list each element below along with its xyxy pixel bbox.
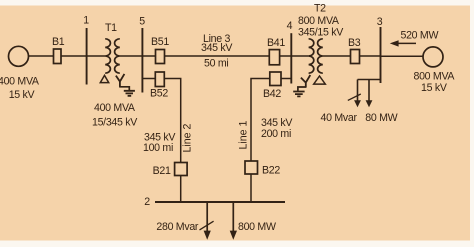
- svg-text:B52: B52: [150, 88, 168, 100]
- wire B41 to bus 4: [280, 55, 292, 57]
- svg-text:345 kV: 345 kV: [201, 42, 233, 54]
- svg-text:800 MVA: 800 MVA: [298, 15, 340, 27]
- svg-text:4: 4: [287, 20, 293, 32]
- T2 wye symbol: [301, 75, 310, 87]
- generator G2 (right, 800 MVA): [423, 47, 443, 67]
- svg-text:800 MW: 800 MW: [238, 221, 276, 233]
- transformer T2 primary winding: [309, 39, 314, 73]
- 280 Mvar arrowhead: [204, 231, 211, 240]
- wire bus 5 to B52: [142, 78, 155, 80]
- svg-text:50 mi: 50 mi: [204, 58, 228, 70]
- svg-text:Line 2: Line 2: [182, 124, 194, 153]
- 40 Mvar arrowhead: [354, 100, 361, 107]
- svg-text:1: 1: [83, 15, 89, 27]
- 80 MW arrowhead: [366, 100, 373, 107]
- svg-text:B3: B3: [348, 37, 361, 49]
- svg-text:800 MVA: 800 MVA: [414, 71, 456, 83]
- svg-text:400 MVA: 400 MVA: [94, 102, 136, 114]
- T2 ground symbol: [293, 92, 304, 97]
- breaker B51: [156, 50, 165, 64]
- svg-text:T1: T1: [105, 22, 117, 34]
- slash on 280 Mvar arrow: [200, 221, 214, 230]
- svg-text:200 mi: 200 mi: [261, 128, 291, 140]
- T1 wye symbol: [116, 74, 125, 87]
- T1 delta symbol: [100, 75, 108, 82]
- T2 delta symbol: [314, 76, 326, 84]
- svg-text:80 MW: 80 MW: [365, 112, 397, 124]
- wire B1 to bus 1: [61, 55, 87, 57]
- svg-text:280 Mvar: 280 Mvar: [156, 221, 199, 233]
- bus 2: [155, 201, 285, 203]
- wire T1 to bus 5: [120, 55, 143, 57]
- wire G1 to B1: [28, 55, 53, 57]
- T2 ground lead: [298, 87, 307, 91]
- svg-text:15 kV: 15 kV: [421, 82, 448, 94]
- svg-text:15/345 kV: 15/345 kV: [92, 116, 138, 128]
- wire bus 4 to T2: [291, 55, 308, 57]
- breaker B3: [351, 50, 360, 64]
- bus 1: [86, 28, 88, 85]
- wire B21 to bus 2: [180, 176, 182, 203]
- svg-text:40 Mvar: 40 Mvar: [321, 112, 358, 124]
- bus 3: [380, 27, 382, 83]
- T1 ground symbol: [124, 91, 135, 96]
- 280 Mvar load line: [206, 202, 208, 233]
- breaker B42: [270, 72, 281, 86]
- svg-text:B42: B42: [263, 88, 281, 100]
- svg-text:B41: B41: [267, 37, 285, 49]
- svg-text:400 MVA: 400 MVA: [0, 76, 40, 88]
- wire bus 1 to T1: [87, 55, 106, 57]
- T1 ground lead: [119, 87, 129, 91]
- slash on 40 Mvar arrow: [348, 94, 361, 100]
- transformer T1 primary winding: [105, 39, 110, 73]
- 520 MW flow arrow: [397, 42, 416, 44]
- breaker B21: [175, 163, 188, 176]
- breaker B22: [245, 161, 258, 174]
- wire B22 to bus 2: [250, 174, 252, 202]
- wire bus 5 to B51: [142, 55, 155, 57]
- svg-text:15 kV: 15 kV: [9, 89, 36, 101]
- 800 MW load line: [232, 202, 234, 233]
- bus 4: [290, 33, 292, 83]
- svg-text:B21: B21: [153, 165, 171, 177]
- wire B52 to Line 2 corner: [164, 79, 180, 164]
- svg-text:Line 1: Line 1: [237, 121, 249, 150]
- wire bus 4 to B42: [281, 78, 292, 80]
- transformer T1 secondary winding: [115, 39, 120, 73]
- svg-text:3: 3: [377, 16, 383, 28]
- svg-text:B1: B1: [52, 36, 65, 48]
- svg-text:B22: B22: [262, 164, 280, 176]
- wire T2 to B3: [323, 55, 351, 57]
- breaker B52: [155, 72, 164, 87]
- wire bus 3 to G2: [381, 55, 424, 57]
- svg-text:2: 2: [144, 196, 150, 208]
- svg-text:520 MW: 520 MW: [401, 30, 439, 42]
- wire Line 3 (B51 to B41): [165, 55, 271, 57]
- wire B3 to bus 3: [360, 55, 381, 57]
- generator G1 (left, 400 MVA): [9, 46, 29, 66]
- svg-text:5: 5: [139, 16, 145, 28]
- wire B42 to Line 1 corner: [251, 79, 270, 162]
- 800 MW arrowhead: [230, 231, 237, 240]
- svg-text:345/15 kV: 345/15 kV: [298, 27, 344, 39]
- transformer T2 secondary winding: [318, 39, 323, 73]
- 520 MW arrowhead: [390, 40, 399, 46]
- svg-text:100 mi: 100 mi: [143, 142, 173, 154]
- load branch at bus 3: [358, 80, 381, 102]
- svg-text:T2: T2: [314, 3, 326, 15]
- bus 5: [141, 28, 143, 93]
- breaker B41: [269, 50, 279, 65]
- svg-text:B51: B51: [151, 36, 169, 48]
- breaker B1: [54, 49, 62, 64]
